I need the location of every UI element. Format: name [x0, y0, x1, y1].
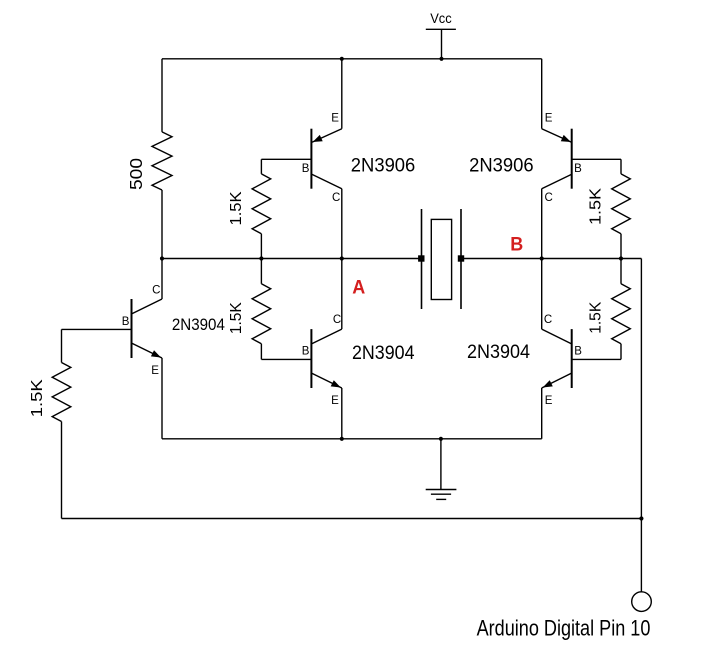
transistor Q2 base bar [571, 129, 573, 189]
wire Q5 emitter vertical [161, 358, 163, 439]
svg-text:2N3904: 2N3904 [467, 342, 530, 363]
wire Q4 collector vertical [541, 259, 543, 330]
resistor R6 1.5K [612, 284, 631, 344]
wire R1 top lead [161, 59, 163, 132]
label R5 value 1.5K [588, 187, 605, 225]
wire Q2 collector diagonal [542, 174, 572, 188]
svg-text:C: C [545, 192, 553, 204]
svg-text:B: B [574, 345, 582, 357]
svg-text:500: 500 [126, 158, 146, 190]
svg-text:E: E [331, 395, 339, 407]
wire Q1 collector diagonal [312, 174, 342, 188]
junction bottom rail / ground [439, 437, 443, 441]
transistor Q3 base bar [310, 329, 312, 388]
resistor R2 1.5K [252, 174, 271, 234]
svg-text:E: E [331, 113, 339, 125]
junction top rail / Q1 emitter [340, 57, 344, 61]
arrow Q1 emitter (PNP into base) [313, 135, 323, 142]
svg-text:B: B [302, 345, 310, 357]
wire Q4 base lead [572, 358, 621, 360]
terminal square crystal left [418, 255, 424, 261]
svg-text:2N3906: 2N3906 [469, 156, 533, 177]
junction Vcc on top rail [439, 57, 443, 61]
svg-text:C: C [152, 284, 160, 296]
arrow Q3 emitter (NPN out) [331, 380, 341, 387]
svg-text:2N3904: 2N3904 [352, 343, 415, 364]
svg-text:2N3906: 2N3906 [351, 156, 416, 177]
svg-text:C: C [332, 192, 340, 204]
label R4 value 1.5K [29, 379, 46, 417]
wire R5 bottom lead [620, 234, 622, 259]
svg-text:C: C [333, 314, 341, 326]
svg-text:1.5K: 1.5K [228, 191, 245, 226]
wire ground stem [440, 439, 442, 490]
wire Q2 base lead [572, 158, 621, 160]
wire far right rail [640, 259, 642, 592]
wire Q2 emitter vertical [541, 59, 543, 129]
svg-text:E: E [151, 365, 159, 377]
wire R2 bottom lead [260, 234, 262, 259]
svg-text:B: B [302, 163, 310, 175]
junction R2/R3 divider node [259, 256, 263, 260]
terminal square crystal right [458, 255, 464, 261]
wire R5 top lead [620, 159, 622, 174]
svg-text:E: E [545, 395, 553, 407]
terminal circle Arduino pin [632, 592, 652, 612]
wire node row left [162, 258, 421, 260]
wire Q2 collector vertical [541, 189, 543, 259]
svg-text:2N3904: 2N3904 [172, 315, 225, 334]
svg-text:1.5K: 1.5K [588, 187, 605, 225]
wire Q3 emitter diagonal [312, 373, 342, 388]
svg-text:Arduino Digital Pin 10: Arduino Digital Pin 10 [477, 615, 651, 640]
svg-text:A: A [352, 277, 365, 299]
wire Vcc stem [441, 29, 443, 59]
wire Q5 base lead [62, 328, 132, 330]
wire long bottom [62, 518, 642, 520]
node A junction [340, 256, 344, 260]
wire R3 top lead [260, 259, 262, 284]
crystal X1 right plate [460, 209, 462, 309]
arrow Q5 emitter (NPN out) [151, 350, 161, 357]
wire top rail Vcc [162, 58, 542, 60]
power symbol Vcc bar [426, 28, 456, 30]
label R2 value 1.5K [228, 191, 245, 226]
wire Q1 base lead [261, 158, 311, 160]
label R1 value 500 [126, 158, 146, 190]
transistor Q1 base bar [310, 129, 312, 189]
wire bottom rail [162, 438, 542, 440]
wire Q2 emitter diagonal [542, 129, 572, 143]
wire Q3 emitter vertical [341, 388, 343, 439]
arrow Q2 emitter (PNP into base) [561, 135, 571, 142]
wire R3 bottom lead [260, 344, 262, 360]
wire Q1 emitter vertical [341, 59, 343, 129]
wire Q4 emitter diagonal [542, 373, 572, 388]
wire R4 bottom lead [61, 422, 63, 519]
resistor R1 500 [152, 132, 172, 190]
wire Q5 collector diagonal [132, 299, 162, 314]
resistor R5 1.5K [612, 174, 631, 234]
svg-text:B: B [510, 233, 523, 255]
wire Q5 collector vertical [161, 259, 163, 300]
junction right divider node [619, 256, 623, 260]
wire Q5 emitter diagonal [132, 343, 162, 358]
transistor Q4 base bar [571, 329, 573, 388]
wire R6 top lead [620, 259, 622, 284]
ground bar 1 [426, 489, 457, 491]
junction bottom rail / Q3 emitter [340, 437, 344, 441]
junction far right / long wire [639, 516, 643, 520]
label R6 value 1.5K [588, 301, 605, 334]
ground bar 3 [436, 498, 446, 500]
svg-text:C: C [544, 314, 552, 326]
wire R6 bottom lead [620, 344, 622, 360]
ground bar 2 [431, 493, 451, 495]
svg-text:1.5K: 1.5K [29, 379, 46, 417]
wire node row right [461, 258, 641, 260]
node B junction [540, 256, 544, 260]
wire R1 bottom lead [161, 190, 163, 259]
svg-text:E: E [545, 113, 553, 125]
wire Q3 base lead [261, 358, 311, 360]
junction left rail node [160, 256, 164, 260]
wire Q4 emitter vertical [541, 388, 543, 439]
wire Q3 collector vertical [341, 259, 343, 330]
wire Q1 emitter diagonal [312, 129, 342, 143]
crystal X1 body [431, 219, 451, 299]
svg-text:B: B [122, 316, 130, 328]
crystal X1 left plate [421, 209, 423, 309]
svg-text:1.5K: 1.5K [588, 301, 605, 334]
svg-text:1.5K: 1.5K [228, 302, 245, 335]
svg-text:Vcc: Vcc [430, 11, 452, 26]
wire R2 top lead [260, 159, 262, 174]
wire Q1 collector vertical [341, 189, 343, 259]
wire Q4 collector diagonal [542, 329, 572, 344]
resistor R4 1.5K [52, 363, 71, 422]
label R3 value 1.5K [228, 302, 245, 335]
transistor Q5 base bar [131, 299, 133, 358]
wire R4 top lead [61, 329, 63, 362]
wire Q3 collector diagonal [312, 329, 342, 344]
svg-text:B: B [574, 163, 582, 175]
resistor R3 1.5K [252, 284, 271, 344]
arrow Q4 emitter (NPN out) [543, 380, 553, 387]
